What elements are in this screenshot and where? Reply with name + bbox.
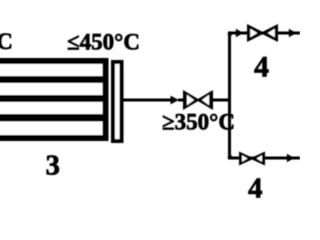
- wire top branch: [228, 32, 300, 35]
- svg-text:4: 4: [254, 51, 269, 84]
- valve V3 right wedge: [250, 152, 265, 166]
- flow arrow A1: [171, 96, 179, 105]
- heat exchanger 3 outlet header: [113, 62, 122, 141]
- flow arrow A4: [287, 154, 295, 163]
- valve V1 left wedge: [183, 90, 200, 110]
- riser corner dot top: [228, 31, 233, 36]
- riser manifold wire: [228, 35, 231, 158]
- valve V3 left wedge: [239, 152, 254, 166]
- heat exchanger 3 body: [0, 61, 106, 138]
- heat exchanger 3 tube band 1: [0, 76, 103, 83]
- valve V2 right wedge: [260, 24, 278, 42]
- wire outlet line: [123, 99, 172, 102]
- wire bottom branch: [228, 157, 300, 160]
- wire valve to riser: [211, 99, 231, 102]
- heat exchanger 3 tube band 2: [0, 95, 103, 102]
- valve V1 right wedge: [196, 90, 213, 110]
- svg-text:3: 3: [46, 150, 61, 182]
- valve V2 left wedge: [247, 24, 265, 42]
- svg-text:4: 4: [248, 173, 263, 201]
- svg-text:≤450°C: ≤450°C: [67, 30, 140, 55]
- flow arrow A2: [236, 29, 244, 38]
- riser corner dot bottom: [228, 155, 233, 160]
- svg-text:≥350°C: ≥350°C: [162, 110, 235, 135]
- wire valve inlet stub: [178, 99, 186, 102]
- flow arrow A3: [289, 29, 297, 38]
- svg-text:°C: °C: [0, 29, 13, 54]
- heat exchanger 3 tube band 3: [0, 114, 103, 122]
